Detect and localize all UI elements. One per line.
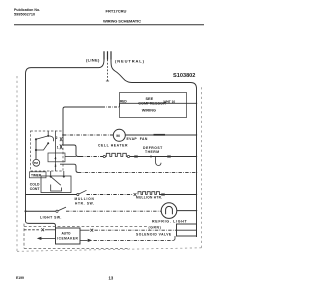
svg-text:3: 3	[55, 164, 57, 168]
svg-text:(GRN): (GRN)	[149, 226, 162, 230]
svg-text:WIRING: WIRING	[142, 109, 156, 113]
svg-text:WIRING SCHEMATIC: WIRING SCHEMATIC	[103, 18, 141, 23]
svg-text:(NEUTRAL): (NEUTRAL)	[115, 59, 145, 64]
svg-text:SOLENOID VALVE: SOLENOID VALVE	[136, 232, 172, 236]
svg-text:13: 13	[109, 275, 114, 280]
svg-text:1: 1	[57, 146, 59, 150]
svg-text:TM: TM	[34, 161, 39, 165]
svg-text:THERM: THERM	[145, 150, 160, 154]
svg-text:CONT: CONT	[30, 187, 41, 191]
svg-text:CELL HEATER: CELL HEATER	[98, 143, 128, 147]
svg-text:EVAP FAN: EVAP FAN	[127, 137, 148, 141]
svg-text:REFRIG. LIGHT: REFRIG. LIGHT	[152, 220, 188, 224]
svg-text:LIGHT SW.: LIGHT SW.	[40, 216, 62, 220]
svg-text:Publication No.: Publication No.	[14, 8, 40, 12]
svg-text:(LINE): (LINE)	[86, 58, 100, 63]
svg-text:SEE: SEE	[146, 97, 154, 101]
svg-text:4: 4	[55, 156, 57, 160]
svg-text:WHT 10: WHT 10	[164, 100, 176, 104]
svg-text:HTR. SW.: HTR. SW.	[75, 202, 95, 206]
svg-text:TIMER: TIMER	[31, 173, 42, 177]
svg-text:COLD: COLD	[30, 182, 40, 186]
svg-text:E199: E199	[16, 276, 24, 280]
svg-text:5995002710: 5995002710	[14, 13, 35, 17]
svg-text:COMPRESSOR: COMPRESSOR	[138, 102, 166, 106]
svg-text:ICEMAKER: ICEMAKER	[57, 236, 78, 240]
svg-text:2: 2	[56, 136, 58, 140]
svg-text:FRT17CRU: FRT17CRU	[106, 9, 127, 14]
svg-text:S103802: S103802	[173, 73, 195, 79]
svg-text:RED: RED	[120, 99, 127, 103]
svg-text:AUTO: AUTO	[62, 232, 71, 236]
svg-text:MULLION HTR.: MULLION HTR.	[136, 196, 162, 200]
